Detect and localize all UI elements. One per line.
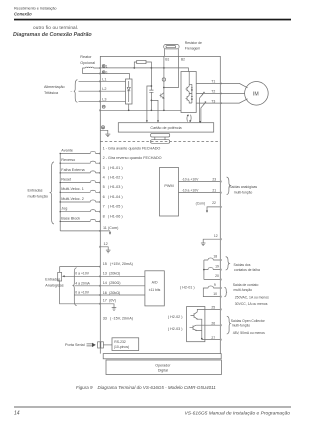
- svg-text:Saídas dos: Saídas dos: [234, 263, 251, 267]
- svg-text:Digital: Digital: [158, 369, 168, 373]
- wire DC+ bus: [100, 68, 188, 72]
- svg-text:Saída de contato: Saída de contato: [233, 283, 259, 287]
- wire terminal 14 current input: [75, 281, 145, 286]
- wire voltage tap upper to power card: [146, 86, 152, 123]
- switch input 2 Reverso: [60, 156, 162, 164]
- junction DC+ / resistor left: [133, 67, 135, 69]
- switch input 3 Falha Externa: [60, 166, 124, 174]
- junction brake node: [163, 87, 165, 89]
- switch input 4 Reset: [60, 176, 124, 184]
- svg-text:L3: L3: [102, 97, 106, 101]
- svg-text:-10 a +10V: -10 a +10V: [182, 177, 199, 181]
- svg-text:Trifásica: Trifásica: [44, 91, 59, 95]
- svg-text:4 a 20mA: 4 a 20mA: [75, 281, 90, 285]
- wire rectifier to DC-: [128, 104, 130, 110]
- inverter enclosure: [100, 56, 220, 353]
- svg-text:Avante: Avante: [61, 148, 73, 152]
- terminal minus: [102, 105, 105, 108]
- svg-text:multi-função: multi-função: [234, 190, 253, 194]
- svg-text:1 - Gira avante quando FECHADO: 1 - Gira avante quando FECHADO: [103, 146, 161, 150]
- wire input L3: [79, 100, 126, 102]
- svg-text:0 a +10V: 0 a +10V: [75, 291, 89, 295]
- svg-text:8 ( H1-06 ): 8 ( H1-06 ): [103, 214, 124, 218]
- svg-text:Multi-Veloc. 1: Multi-Veloc. 1: [61, 187, 84, 191]
- brace analog inputs: [73, 268, 77, 306]
- wire analog output 21: [179, 188, 221, 192]
- svg-text:Reverso: Reverso: [61, 158, 75, 162]
- terminal 11 common: [60, 226, 119, 235]
- svg-text:-10 a +10V: -10 a +10V: [182, 188, 199, 192]
- IGBT V-phase: [186, 94, 193, 104]
- svg-text:IM: IM: [253, 91, 259, 97]
- wire DC- bus: [100, 109, 181, 111]
- transistor open collector 26: [168, 321, 220, 331]
- svg-text:( H2-03 ): ( H2-03 ): [168, 327, 183, 331]
- transistor open collector 25: [168, 306, 220, 320]
- wire fault common vertical: [203, 260, 205, 280]
- terminal 12 shield right: [201, 234, 220, 246]
- svg-text:L1: L1: [102, 77, 106, 81]
- svg-text:multi-função: multi-função: [28, 194, 48, 198]
- svg-text:( H2-02 ): ( H2-02 ): [168, 315, 183, 319]
- svg-text:6 ( H1-04 ): 6 ( H1-04 ): [103, 195, 124, 199]
- junction fault common: [203, 269, 205, 271]
- svg-text:Recebimento e Instalação: Recebimento e Instalação: [14, 6, 56, 10]
- svg-text:16 (20kΩ): 16 (20kΩ): [103, 291, 121, 295]
- terminal ticks right bus: [220, 83, 222, 341]
- IGBT inverter module: [181, 72, 196, 113]
- svg-text:Entradas: Entradas: [28, 188, 43, 192]
- wire +2 to rectifier: [100, 74, 129, 80]
- wire voltage tap lower to power card: [151, 100, 159, 122]
- wire T2: [196, 92, 244, 94]
- terminal 15 +15V supply: [60, 262, 134, 272]
- svg-text:Frenagem: Frenagem: [185, 46, 201, 50]
- svg-text:( H2-01 ): ( H2-01 ): [180, 286, 195, 290]
- brace fault outputs: [226, 257, 230, 270]
- svg-text:Multi-Veloc. 2: Multi-Veloc. 2: [61, 197, 84, 201]
- svg-text:17 (0V): 17 (0V): [103, 299, 117, 303]
- fault relay contact 18: [204, 255, 220, 260]
- svg-text:RS-232: RS-232: [114, 340, 126, 344]
- power card box: [118, 123, 213, 132]
- fault relay contact 19: [204, 265, 220, 270]
- IGBT U-phase: [186, 72, 193, 94]
- terminal 12 shield left: [100, 242, 110, 253]
- svg-text:Falha Externa: Falha Externa: [61, 168, 85, 172]
- svg-text:14: 14: [14, 411, 20, 417]
- capacitor DC bus: [149, 68, 153, 110]
- svg-text:Figura 9 Diagrama Terminal: Figura 9 Diagrama Terminal do VS-616G5 -…: [76, 385, 216, 390]
- wire T1: [196, 83, 247, 87]
- current sensor T3: [199, 102, 206, 123]
- transistor brake IGBT: [160, 93, 164, 99]
- junction capacitor tap lower: [151, 100, 153, 102]
- junction DC- / capacitor: [151, 109, 153, 111]
- gate drive arrows between card and IGBT module: [187, 114, 192, 122]
- svg-text:12: 12: [104, 242, 108, 246]
- junction DC+ / capacitor branch: [151, 67, 153, 69]
- digital operator box: [106, 360, 221, 375]
- svg-text:19: 19: [215, 265, 219, 269]
- ground earth symbol chassis: [100, 130, 110, 136]
- svg-text:T1: T1: [211, 79, 215, 83]
- svg-text:VS-616G5 Manual de Instalação: VS-616G5 Manual de Instalação e Programa…: [185, 410, 291, 416]
- operator connector bar: [103, 354, 221, 359]
- charging resistor bypass: [134, 60, 151, 68]
- svg-text:outro fio ou terminal.: outro fio ou terminal.: [33, 25, 78, 30]
- svg-text:L2: L2: [102, 87, 106, 91]
- switch input 8 Base Block: [60, 214, 124, 222]
- svg-text:4 ( H1-02 ): 4 ( H1-02 ): [103, 176, 124, 180]
- svg-text:Reator: Reator: [80, 55, 92, 59]
- svg-text:27: 27: [211, 336, 215, 340]
- wire B2 branch: [164, 56, 179, 87]
- switch input 1 Avante: [60, 146, 161, 154]
- dashed boundary control card: [100, 140, 220, 142]
- svg-text:7 ( H1-05 ): 7 ( H1-05 ): [103, 205, 124, 209]
- current sensor T2: [199, 92, 204, 122]
- open collector module box: [187, 307, 205, 342]
- svg-text:12: 12: [214, 234, 218, 238]
- svg-text:Base Block: Base Block: [61, 216, 80, 220]
- junction DC+ / B1 branch: [163, 67, 165, 69]
- braking resistor: [164, 45, 179, 57]
- svg-text:23: 23: [212, 177, 216, 181]
- wire input L2: [79, 90, 126, 92]
- svg-text:±11 bits: ±11 bits: [149, 288, 161, 292]
- wire pot low to terminal 17: [60, 281, 117, 310]
- RS-232 interface box: [112, 338, 139, 351]
- svg-text:Analógicas: Analógicas: [45, 284, 63, 288]
- serial port connector: [98, 342, 112, 348]
- potentiometer speed reference: [58, 272, 62, 281]
- svg-text:~: ~: [70, 90, 72, 94]
- wire pot wiper terminal 13: [62, 272, 145, 278]
- footer rule: [14, 406, 291, 409]
- svg-text:Saídas Open Collector: Saídas Open Collector: [231, 319, 266, 323]
- svg-text:Saídas analógicas: Saídas analógicas: [229, 185, 257, 189]
- svg-text:25: 25: [211, 306, 215, 310]
- ground terminal on enclosure: [101, 126, 104, 129]
- inductor optional reactor: [83, 67, 101, 73]
- switch input 7 Jog: [60, 205, 124, 213]
- svg-text:5 ( H1-03 ): 5 ( H1-03 ): [103, 185, 124, 189]
- svg-text:10: 10: [213, 292, 217, 296]
- svg-text:14 (250Ω): 14 (250Ω): [103, 281, 122, 285]
- serial port arrow: [87, 343, 96, 347]
- terminal 22 analog common: [196, 201, 221, 213]
- svg-text:15 (+15V, 20mA): 15 (+15V, 20mA): [103, 262, 134, 266]
- svg-text:Operador: Operador: [155, 364, 171, 368]
- brace supply: [74, 80, 78, 103]
- wire analog output 23: [179, 177, 221, 181]
- wire emitters common 27: [196, 319, 220, 340]
- junction DC- / brake: [163, 109, 165, 111]
- wire terminal 16 aux input: [75, 291, 145, 296]
- svg-text:11 (Com): 11 (Com): [103, 226, 119, 230]
- svg-text:Porta Serial: Porta Serial: [65, 343, 85, 347]
- svg-text:B1: B1: [165, 57, 169, 61]
- svg-text:Conexão: Conexão: [14, 12, 32, 17]
- wire B1 branch: [163, 56, 165, 110]
- svg-text:Resistor de: Resistor de: [185, 41, 202, 45]
- svg-text:Jog: Jog: [61, 207, 67, 211]
- PWM block: [160, 168, 179, 217]
- wire input L1: [79, 80, 126, 82]
- motor IM: [245, 82, 269, 106]
- svg-text:T3: T3: [211, 99, 215, 103]
- terminal +1: [102, 64, 107, 68]
- switch input 5 Multi-Veloc. 1: [60, 185, 124, 193]
- switch input 6 Multi-Veloc. 2: [60, 195, 124, 203]
- brace open collector outputs: [227, 316, 231, 334]
- connector power card to control card: [151, 133, 170, 143]
- svg-text:multi-função: multi-função: [234, 288, 253, 292]
- svg-text:18: 18: [213, 255, 217, 259]
- svg-text:T2: T2: [211, 89, 215, 93]
- svg-text:13 (20kΩ): 13 (20kΩ): [103, 272, 121, 276]
- svg-text:Reset: Reset: [61, 178, 72, 182]
- junction DC- / rectifier: [128, 109, 130, 111]
- svg-text:33 ( -15V, 20mA): 33 ( -15V, 20mA): [103, 316, 134, 320]
- svg-text:21: 21: [212, 188, 216, 192]
- svg-text:22: 22: [212, 201, 216, 205]
- wire T3: [196, 99, 247, 103]
- wire common of input switches: [59, 154, 61, 231]
- svg-text:2 - Gira reverso quando FECHAD: 2 - Gira reverso quando FECHADO: [103, 156, 162, 160]
- relay output 9/10: [180, 283, 220, 297]
- svg-text:(Com): (Com): [196, 201, 205, 205]
- rectifier diode bridge: [126, 79, 133, 104]
- fault relay common 20: [204, 274, 220, 279]
- fuse on B1 branch: [162, 78, 165, 81]
- svg-text:9: 9: [214, 283, 216, 287]
- brace analog outputs: [227, 177, 231, 195]
- svg-text:PWM: PWM: [164, 184, 173, 188]
- svg-text:26: 26: [211, 321, 215, 325]
- svg-text:Opcional: Opcional: [80, 61, 95, 65]
- svg-text:Cartão de potência: Cartão de potência: [150, 126, 182, 130]
- svg-text:20: 20: [215, 274, 219, 278]
- terminal ticks left bus: [98, 67, 100, 305]
- header rule: [14, 19, 291, 21]
- svg-text:multi-função: multi-função: [232, 324, 251, 328]
- A/D converter box: [145, 271, 164, 306]
- terminal +2: [102, 71, 107, 75]
- brace relay output: [224, 287, 227, 297]
- svg-text:2: 2: [106, 71, 108, 75]
- svg-text:(10-pinos): (10-pinos): [114, 345, 129, 349]
- junction capacitor tap upper: [151, 85, 153, 87]
- brace multi-function inputs: [50, 162, 54, 224]
- svg-text:B2: B2: [181, 57, 185, 61]
- svg-text:250VAC, 1A ou menos: 250VAC, 1A ou menos: [235, 295, 269, 299]
- svg-text:Alimentação: Alimentação: [44, 85, 65, 89]
- svg-text:Diagramas de Conexão Padrão: Diagramas de Conexão Padrão: [13, 32, 92, 38]
- svg-text:30VCC, 1A ou menos: 30VCC, 1A ou menos: [235, 302, 268, 306]
- svg-text:Entradas: Entradas: [45, 278, 60, 282]
- svg-text:48V, 50mA ou menos: 48V, 50mA ou menos: [233, 331, 265, 335]
- svg-text:0 a +10V: 0 a +10V: [75, 272, 89, 276]
- svg-text:A/D: A/D: [152, 280, 158, 284]
- svg-text:contatos de falha: contatos de falha: [234, 268, 260, 272]
- svg-text:3 ( H1-01 ): 3 ( H1-01 ): [103, 166, 124, 170]
